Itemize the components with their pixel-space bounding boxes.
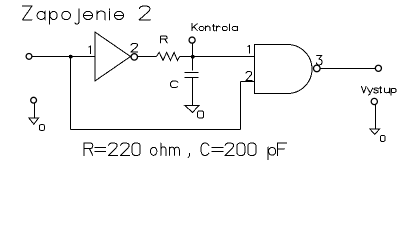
label 0 of left ground — [40, 125, 45, 131]
wire inverter U1 output to resistor R — [138, 56, 157, 58]
pin number 1 of inverter U1 — [89, 46, 91, 53]
NAND gate U2 body — [255, 45, 312, 94]
caption text "R=220 ohm, C=200 pF" — [84, 143, 287, 160]
wire feedback vertical from input node — [70, 57, 72, 130]
junction input node — [69, 55, 73, 59]
label C of capacitor — [171, 81, 178, 88]
terminal output — [375, 65, 381, 71]
wire Vystup terminal to ground — [375, 105, 377, 129]
terminal input port — [26, 54, 32, 60]
inverter U1 output bubble — [131, 54, 137, 60]
ground symbol below capacitor (0 V) — [185, 106, 199, 113]
wire NAND U2 output to output terminal — [320, 68, 375, 70]
wire capacitor C to ground — [192, 78, 194, 105]
ground symbol Vystup (0 V) — [370, 129, 380, 134]
wire input terminal to inverter U1 pin 1 — [32, 56, 95, 58]
junction node Kontrola — [191, 55, 195, 59]
label R of resistor — [161, 36, 168, 43]
pin number 2 of inverter U1 — [131, 43, 138, 52]
wire feedback bottom horizontal — [71, 129, 241, 131]
pin number 2 of NAND U2 — [246, 72, 252, 81]
label 0 of capacitor ground — [198, 111, 204, 118]
ground symbol left (0 V) — [29, 118, 39, 124]
NAND gate U2 output bubble — [314, 65, 321, 72]
wire feedback vertical up to NAND pin 2 — [240, 82, 242, 130]
wire left ground stem — [34, 103, 36, 117]
pin number 3 of NAND U2 — [317, 55, 323, 65]
label 0 of Vystup ground — [381, 135, 386, 141]
wire Kontrola terminal stem — [192, 43, 194, 57]
title text "Zapojenie 2" — [23, 6, 151, 24]
wire feedback to NAND U2 pin 2 — [241, 81, 255, 83]
wire resistor R to NAND U2 pin 1 — [180, 56, 255, 58]
label Vystup — [361, 86, 396, 95]
capacitor C plates — [185, 73, 199, 78]
pin number 1 of NAND U2 — [248, 45, 250, 53]
resistor R — [156, 52, 179, 60]
terminal Vystup probe — [371, 98, 377, 104]
inverter U1 triangle — [95, 32, 131, 81]
terminal of left ground reference — [31, 97, 37, 103]
label Kontrola — [192, 24, 238, 31]
terminal Kontrola — [189, 37, 195, 43]
wire node Kontrola to capacitor C — [192, 57, 194, 71]
